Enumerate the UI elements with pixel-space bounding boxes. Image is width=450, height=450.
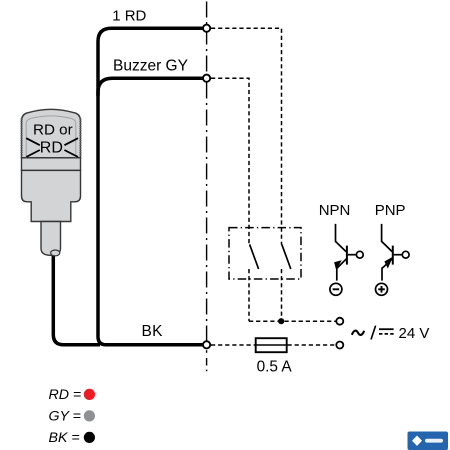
svg-text:0.5 A: 0.5 A [257,359,293,376]
svg-text:RD =: RD = [49,387,82,403]
svg-text:PNP: PNP [375,202,406,219]
svg-text:GY =: GY = [49,408,81,424]
svg-text:24 V: 24 V [399,325,430,342]
svg-text:RD or: RD or [33,121,73,138]
svg-text:RD: RD [40,139,63,156]
svg-text:Buzzer GY: Buzzer GY [113,57,188,74]
svg-text:1 RD: 1 RD [112,8,146,25]
svg-text:BK =: BK = [49,430,80,446]
svg-text:NPN: NPN [319,202,351,219]
svg-text:BK: BK [142,323,164,340]
